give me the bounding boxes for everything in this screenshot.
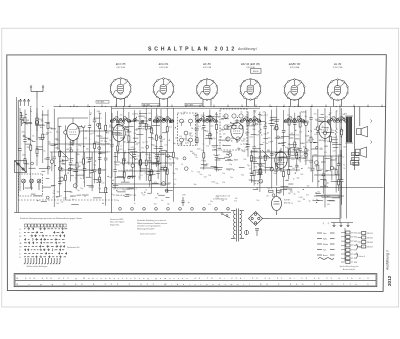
svg-text:50k: 50k [333,169,336,171]
svg-text:70p: 70p [144,118,147,120]
svg-text:8µ: 8µ [188,202,190,204]
svg-text:0,5M: 0,5M [138,120,143,122]
component chain C34 R43 [282,110,288,196]
svg-text:25p: 25p [129,189,132,191]
capacitor stack ratio detector [352,153,360,166]
svg-text:0,25: 0,25 [51,186,54,188]
svg-text:47k: 47k [155,198,158,200]
svg-text:5k: 5k [343,168,345,170]
svg-text:5k: 5k [191,128,193,130]
caption block a [110,219,125,227]
svg-text:50k: 50k [293,150,296,152]
svg-text:100: 100 [26,120,29,122]
wire output stage vertical a [340,150,342,219]
component chain C50 R57 [123,153,128,183]
svg-text:Rückseite beachten: Rückseite beachten [140,233,156,236]
component chain C57 [270,150,276,189]
svg-text:0,25: 0,25 [84,138,87,140]
component chain C64 R65 [337,156,340,191]
wire interconnect jogs field [20,112,343,204]
svg-text:70p: 70p [338,117,341,119]
svg-text:500: 500 [273,173,276,175]
wire diagonal switch lever c [60,150,68,158]
component chain C9 C10 [69,111,72,181]
svg-text:0,25: 0,25 [146,125,149,127]
svg-text:500: 500 [112,187,115,189]
svg-text:5k: 5k [133,121,135,123]
svg-text:Skala: Skala [323,244,329,246]
svg-text:220: 220 [27,147,30,149]
svg-text:100: 100 [148,158,151,160]
svg-text:500: 500 [133,149,136,151]
svg-text:70p: 70p [185,140,188,142]
svg-text:70p: 70p [49,127,52,129]
svg-text:TR.KASK.: TR.KASK. [323,195,331,198]
svg-text:2n: 2n [150,120,152,122]
svg-text:25p: 25p [129,170,132,172]
svg-text:50k: 50k [22,131,25,133]
component chain R64 C60 [295,150,298,172]
svg-text:70p: 70p [46,133,49,135]
svg-text:500: 500 [143,195,146,197]
component chain R55 C42 [340,108,346,205]
wire local rail [50,151,108,153]
svg-text:500: 500 [56,203,59,205]
svg-text:1k: 1k [124,128,126,130]
tube V7 EZ80 rectifier [272,188,282,216]
wire long link c [250,157,308,159]
caption row coil codes [113,189,138,198]
component chain C54 [164,153,167,186]
svg-text:10n: 10n [121,123,124,125]
svg-text:70p: 70p [160,169,163,171]
svg-text:50k: 50k [154,203,157,205]
svg-text:1k: 1k [39,139,41,141]
svg-text:0,02: 0,02 [194,129,197,131]
resistor R40 surge pair [269,190,282,192]
svg-text:8µ: 8µ [139,167,141,169]
component chain R23 R24 [150,109,152,194]
component chain R6 C4 [46,110,51,175]
svg-text:25p: 25p [98,113,101,115]
svg-text:5k: 5k [145,189,147,191]
svg-text:500: 500 [268,138,271,140]
svg-text:2n: 2n [266,143,268,145]
svg-text:100: 100 [197,149,200,151]
component chain R28 [172,108,178,202]
svg-text:Ger.: Ger. [323,233,327,235]
component chain C23 R25 C24 [155,108,158,167]
svg-text:2n: 2n [181,164,183,166]
wire HT rail to output stage [112,187,384,189]
svg-text:500: 500 [314,113,317,115]
svg-text:47k: 47k [324,152,327,154]
wire long link b [48,143,110,145]
svg-text:0,25: 0,25 [281,157,285,159]
component chain C21 [133,110,140,201]
svg-text:70p: 70p [264,124,267,126]
svg-text:0,25: 0,25 [283,131,286,133]
svg-text:0,25: 0,25 [69,145,73,147]
svg-text:0,5M: 0,5M [153,120,157,122]
component chain C19 [110,113,116,177]
fuse Si1 [244,230,248,234]
svg-text:8µ: 8µ [241,112,243,114]
component chain L53 R54 [335,111,341,193]
svg-text:70p: 70p [237,148,240,150]
wire mechanical tuning link (dashed) [18,199,116,201]
svg-text:50k: 50k [343,146,346,148]
tube V4 label EM 34 (EM 35) [241,62,260,69]
svg-text:2012: 2012 [387,275,392,286]
shield box IF transformer Fi2 (dashed) [220,109,247,150]
svg-text:25p: 25p [155,164,158,166]
svg-text:0,25: 0,25 [333,150,336,152]
svg-text:5k: 5k [127,162,129,164]
svg-text:50k: 50k [336,174,339,176]
svg-text:Ausführung II: Ausführung II [386,250,390,271]
component chain R52 [330,107,336,171]
svg-text:0,25: 0,25 [147,155,150,157]
svg-text:0,5M: 0,5M [257,124,262,126]
svg-text:5k: 5k [43,151,45,153]
svg-text:500: 500 [70,192,73,194]
svg-text:Bass 7: Bass 7 [359,247,364,249]
component chain C35 R46 [293,113,296,155]
svg-text:EF 89: EF 89 [203,62,211,66]
label box EM80 alt under V4 [251,69,262,74]
wire local rail [60,169,105,171]
wire oscillator box top [58,117,88,119]
svg-text:0,1: 0,1 [242,118,244,120]
transformer Tr2 output transformer windings [345,116,353,143]
svg-text:0,1: 0,1 [142,163,144,165]
svg-text:5k: 5k [322,126,324,128]
svg-text:100: 100 [145,141,148,143]
svg-text:47k: 47k [106,132,109,134]
svg-text:ECC 85: ECC 85 [116,62,126,66]
svg-text:2n: 2n [336,111,338,113]
svg-text:5k: 5k [223,145,225,147]
junction ticks on supply bus [60,104,383,107]
component chain R21 R22 [145,108,151,180]
rectifier Gr1 bridge (diamond) [249,212,271,226]
svg-text:2n: 2n [62,159,64,161]
svg-text:2n: 2n [83,182,85,184]
svg-text:70p: 70p [77,190,80,192]
component chain R26 R27 [166,108,172,193]
trimmer capacitor row C-trim [134,118,172,123]
svg-text:220: 220 [144,173,147,175]
svg-text:L: L [19,239,20,241]
svg-text:2: 2 [132,209,133,211]
svg-text:8: 8 [204,209,205,211]
svg-text:1M: 1M [41,120,44,122]
svg-text:8µ: 8µ [72,199,74,201]
speaker LS1 [357,127,368,137]
svg-text:TR.KASK.: TR.KASK. [186,103,194,106]
tube V5 label EABC 80 [289,62,301,69]
component chain C61 [311,156,317,182]
svg-text:47k: 47k [70,196,73,198]
svg-text:30p: 30p [194,184,197,186]
svg-text:50k: 50k [203,160,206,162]
svg-text:500: 500 [299,132,302,134]
component chain R58 [140,153,142,173]
svg-text:0,5M: 0,5M [305,135,310,137]
svg-text:30p: 30p [155,146,158,148]
svg-text:30p: 30p [215,114,218,116]
wire left vertical feeder a [15,97,17,213]
svg-text:0,25: 0,25 [213,199,216,201]
wire output stage vertical b [346,143,348,219]
svg-text:2n: 2n [267,150,269,152]
svg-text:1k: 1k [171,121,173,123]
svg-text:0,1: 0,1 [123,150,125,152]
switch table contact rows [19,228,67,259]
svg-text:70p: 70p [226,128,229,130]
svg-text:500: 500 [55,139,58,141]
svg-text:0,25: 0,25 [178,144,182,146]
svg-text:220: 220 [278,170,281,172]
svg-text:SCHALTPLAN 2012: SCHALTPLAN 2012 [148,46,237,52]
wire local rail [314,174,340,176]
node pin-contact row under V1 [110,118,131,122]
svg-text:50k: 50k [252,129,255,131]
svg-text:100: 100 [338,155,341,157]
svg-text:Wellenschalter-Stellungen: Wellenschalter-Stellungen [27,265,48,268]
svg-text:220: 220 [107,151,110,153]
svg-text:220: 220 [260,181,263,183]
svg-text:Regler links: Regler links [110,224,119,226]
svg-text:220: 220 [223,133,226,135]
svg-text:0,02: 0,02 [118,126,122,128]
svg-text:0,1: 0,1 [140,175,142,177]
component chain C59 R63 [287,150,290,179]
svg-text:(EZ 81): (EZ 81) [284,202,291,204]
svg-text:10: 10 [227,209,229,211]
svg-text:50k: 50k [290,190,293,192]
component chain C63 [330,156,336,180]
switch S2 mains switch [221,213,230,219]
svg-text:70p: 70p [153,153,156,155]
component chain C1 [18,108,24,191]
tube element V6 output pentode system [319,118,331,142]
svg-text:0,1: 0,1 [179,136,182,138]
svg-text:1M: 1M [319,140,322,142]
component chain L38 R39 [259,112,265,192]
svg-text:47k: 47k [154,182,157,184]
tube V2 label ECH 81 [159,62,169,69]
svg-text:Höhen 9: Höhen 9 [359,256,365,258]
tube V6 EL 84 envelope [327,79,348,101]
wire local rail [114,152,172,154]
svg-text:50k: 50k [220,129,223,131]
coil L1 antenna coil [36,113,39,131]
svg-text:25p: 25p [175,169,178,171]
svg-text:30p: 30p [303,123,306,125]
svg-text:27 505: 27 505 [351,241,358,243]
svg-text:0,5M: 0,5M [313,154,318,156]
svg-text:220: 220 [173,184,176,186]
svg-text:Ausführung I: Ausführung I [237,47,257,51]
svg-text:1M: 1M [192,153,195,155]
svg-text:0,5M: 0,5M [141,170,145,172]
svg-text:0,02: 0,02 [222,116,226,118]
svg-text:5k: 5k [109,127,111,129]
tube V5 EABC 80 envelope [284,79,305,101]
svg-text:0,25: 0,25 [158,162,161,164]
svg-text:30p: 30p [98,128,101,130]
svg-text:220: 220 [79,162,82,164]
svg-text:5k: 5k [32,136,34,138]
svg-text:Gemessen 220V: Gemessen 220V [110,219,124,221]
svg-text:30p: 30p [241,175,244,177]
svg-text:7: 7 [192,209,193,211]
svg-text:Drucktasten S2a: Drucktasten S2a [67,246,80,249]
svg-text:0,25: 0,25 [314,134,318,136]
svg-text:50k: 50k [25,124,28,126]
svg-text:47k: 47k [68,200,71,202]
caption block b [136,219,168,236]
tube V1 ECC 85 envelope [110,78,131,100]
svg-text:100: 100 [253,110,256,112]
svg-text:0,25: 0,25 [216,196,219,198]
svg-text:8µ: 8µ [142,142,144,144]
svg-text:47k: 47k [254,167,257,169]
coil cores inside Fi1 [180,119,193,145]
svg-text:70p: 70p [270,119,273,121]
svg-text:70p: 70p [72,169,75,171]
svg-text:47k: 47k [135,113,138,115]
svg-text:70p: 70p [96,142,99,144]
node pin-contact row under V6 [327,118,348,122]
svg-text:30p: 30p [182,122,185,124]
svg-text:10n: 10n [137,155,140,157]
svg-text:0,1: 0,1 [265,115,268,117]
wire long link a [85,130,112,132]
svg-text:47k: 47k [201,128,204,130]
svg-text:0,1: 0,1 [325,117,328,119]
svg-text:220: 220 [204,176,207,178]
svg-text:27 508: 27 508 [351,254,358,256]
svg-text:0,5M: 0,5M [273,154,278,156]
svg-text:1k: 1k [293,179,295,181]
svg-text:0,1: 0,1 [190,135,193,137]
tube element V5 detector system [275,148,287,172]
node pin-contact row under V5 [284,118,305,122]
tube V1 label ECC 85 [116,62,126,69]
svg-text:27 506: 27 506 [351,245,358,247]
svg-text:5k: 5k [320,129,322,131]
svg-text:2n: 2n [316,126,318,128]
svg-text:0,25: 0,25 [201,115,205,117]
component chain C37 R48 [304,110,309,165]
svg-text:100: 100 [102,183,105,185]
svg-text:0,25: 0,25 [325,127,328,129]
svg-text:50k: 50k [61,201,64,203]
svg-text:25p: 25p [167,203,170,205]
wire local rail [118,170,168,172]
svg-text:500: 500 [340,130,343,132]
svg-text:0,5M: 0,5M [284,122,289,124]
svg-text:Lötstellen nur mit geeignetem: Lötstellen nur mit geeignetem [137,225,161,228]
svg-text:0,02: 0,02 [250,137,254,139]
component chain C15 R11 C16 [93,108,99,183]
svg-text:100: 100 [92,133,95,135]
wire diagonal switch lever a [128,152,136,160]
component chain C6 R7 C7 [58,111,64,197]
svg-text:0,25: 0,25 [216,150,219,152]
svg-text:25p: 25p [78,145,81,147]
svg-text:70p: 70p [213,138,216,140]
component chain R14 C18 R15 [104,112,110,206]
svg-text:0,1: 0,1 [198,126,201,128]
svg-text:30p: 30p [221,119,224,121]
svg-text:ECH 81: ECH 81 [159,62,169,66]
antenna input arrows [19,99,30,106]
svg-text:10n: 10n [210,201,213,203]
svg-text:10n: 10n [300,143,303,145]
svg-text:70p: 70p [80,188,83,190]
component chain C45 [74,152,80,189]
svg-text:5k: 5k [139,122,141,124]
value annotations field [51,111,345,206]
switch S1 band switch contact [23,135,33,141]
connector hooks to chassis [371,120,372,144]
svg-text:8µ: 8µ [275,166,277,168]
svg-text:Sämtliche Gleichspannungen gem: Sämtliche Gleichspannungen gemessen mit … [20,217,82,220]
svg-text:Netz: Netz [323,237,327,240]
socket X1 aerial socket box [15,161,27,173]
svg-text:2n: 2n [196,157,198,159]
svg-text:500: 500 [256,200,259,202]
component chain R41 R42 [276,108,282,186]
svg-text:2n: 2n [329,117,331,119]
svg-text:100: 100 [123,119,126,121]
component chain C41 R51 [323,108,329,207]
svg-text:C99: C99 [182,194,185,196]
resistor R40 speaker network [351,161,359,165]
caption nur bei Ausfuehrung [216,195,230,201]
svg-text:0,5M: 0,5M [299,197,303,199]
svg-text:100: 100 [296,166,299,168]
component chain C8 R8 [64,110,70,201]
tube V3 label EF 89 [203,62,212,69]
svg-text:50k: 50k [306,160,309,162]
svg-text:8µ: 8µ [309,201,311,203]
svg-text:Spulen-Einstellung der: Spulen-Einstellung der [339,265,358,268]
svg-text:0,02: 0,02 [215,122,218,124]
svg-text:500: 500 [231,138,234,140]
svg-text:28 101: 28 101 [367,233,374,235]
svg-text:25p: 25p [308,168,311,170]
svg-text:2n: 2n [138,161,140,163]
svg-text:25p: 25p [173,173,176,175]
component chain R32 R33 [209,110,211,145]
component chain C31 R40 [264,112,270,174]
svg-text:1k: 1k [30,111,32,113]
component chain R44 R45 [288,108,293,167]
svg-text:0,5M: 0,5M [268,141,272,143]
svg-text:47k: 47k [257,119,260,121]
component chain R34 C28 [215,112,221,172]
svg-text:47k: 47k [205,131,208,133]
svg-text:EZ 80: EZ 80 [284,200,291,202]
svg-text:6,3V 0,3A: 6,3V 0,3A [116,66,125,69]
wire local rail [250,151,306,153]
svg-text:10n: 10n [315,120,318,122]
